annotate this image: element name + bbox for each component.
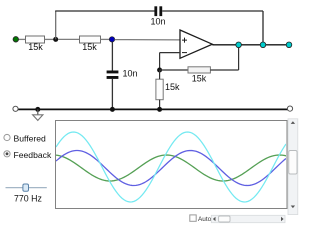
wire R2 to node C [101, 38, 110, 40]
scope trace blue (filter node) [56, 151, 286, 186]
capacitor C2 10n plates [107, 71, 119, 74]
ground rail right terminal [287, 106, 292, 111]
junction dot R3 on rail [157, 107, 162, 112]
junction dot C2 on rail [110, 107, 115, 112]
svg-text:770 Hz: 770 Hz [14, 194, 42, 204]
radio button Buffered [4, 134, 10, 140]
wire node C to op-amp non-inverting input [115, 39, 180, 41]
wire input to R1 [18, 38, 26, 40]
wire node A to R2 [58, 38, 80, 40]
vertical scrollbar track [288, 119, 298, 215]
wire R3 top stub [159, 70, 161, 79]
svg-text:Feedback: Feedback [14, 150, 52, 160]
wire R4 to output riser [210, 69, 238, 71]
node C (blue node) [109, 37, 114, 42]
wire riser to output node B2 [238, 45, 240, 70]
wire C2 to ground rail [111, 79, 113, 110]
vertical scrollbar up arrow [291, 121, 295, 124]
wire R1 to node A [45, 38, 56, 40]
output node B (cyan) [260, 42, 266, 48]
resistor R3 15k (to ground) [156, 79, 163, 100]
resistor R2 15k [80, 36, 101, 43]
wire op-amp output [212, 44, 289, 46]
wire node D to R4 [160, 69, 188, 71]
scope panel [56, 121, 288, 209]
horizontal scrollbar left arrow [213, 217, 216, 221]
slider track [6, 187, 47, 189]
resistor R1 15k [26, 36, 45, 43]
ground symbol stub [37, 109, 39, 114]
svg-text:10n: 10n [150, 17, 165, 27]
output node B2 (cyan) [236, 42, 242, 48]
horizontal scrollbar track [211, 215, 285, 222]
vertical scrollbar down arrow [291, 206, 295, 209]
wire inverting input down to node D [159, 53, 161, 70]
svg-text:15k: 15k [192, 74, 207, 84]
horizontal scrollbar right arrow [281, 217, 284, 221]
wire R3 to ground rail [159, 100, 161, 110]
radio button Feedback (selected) [4, 151, 10, 157]
op-amp U1 minus symbol [182, 52, 187, 54]
svg-text:10n: 10n [123, 69, 138, 79]
checkbox Auto [190, 215, 196, 221]
wire down from top feedback to output node B [262, 11, 264, 45]
resistor R4 15k (feedback) [188, 67, 210, 73]
horizontal scrollbar thumb [219, 216, 230, 222]
op-amp U1 [180, 30, 212, 58]
node A junction dot [53, 37, 58, 42]
svg-text:15k: 15k [28, 42, 43, 52]
scope trace green (buffered input) [56, 155, 286, 181]
input terminal (green node) [13, 37, 18, 42]
ground symbol chevron [33, 115, 43, 121]
svg-text:15k: 15k [165, 82, 180, 92]
svg-text:Auto: Auto [198, 216, 212, 223]
slider thumb [23, 184, 29, 191]
ground junction dot [35, 107, 40, 112]
vertical scrollbar thumb [289, 151, 297, 175]
node D junction dot [157, 68, 162, 73]
svg-text:Buffered: Buffered [14, 134, 47, 144]
capacitor C1 10n plates [154, 6, 157, 16]
ground rail left terminal [13, 106, 18, 111]
wire node A up to top feedback [55, 11, 57, 39]
wire op-amp inverting input [160, 52, 180, 54]
ground rail wire [18, 108, 288, 110]
op-amp U1 plus symbol [182, 38, 187, 43]
output terminal node (cyan) [286, 42, 292, 48]
svg-text:15k: 15k [82, 42, 97, 52]
wire top feedback right segment [162, 10, 263, 12]
wire top feedback left segment [55, 10, 154, 12]
scope trace cyan (output) [56, 132, 286, 202]
wire node C down to C2 [111, 42, 113, 71]
